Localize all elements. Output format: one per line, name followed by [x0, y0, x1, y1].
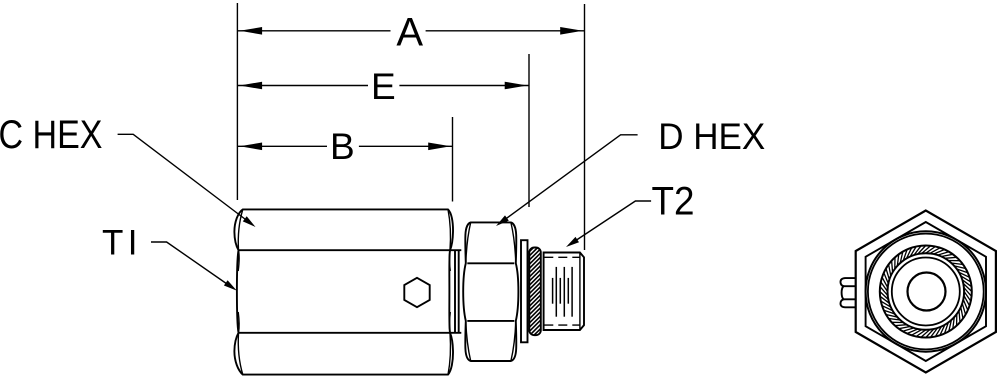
svg-text:D HEX: D HEX — [658, 116, 765, 157]
dimension B — [237, 143, 452, 151]
extension line B (right) — [452, 117, 454, 202]
D hex band line top — [467, 262, 514, 264]
neck face line (nut side) — [458, 250, 460, 333]
end view thread circle — [892, 258, 960, 326]
leader T2 — [566, 201, 651, 247]
hex socket mark on body — [404, 278, 429, 307]
knurled collar T2 (side view) — [442, 248, 626, 336]
end view washer circle — [868, 234, 984, 350]
extension line (left, shared by A E B) — [236, 3, 238, 200]
svg-text:T2: T2 — [652, 180, 695, 224]
svg-text:C HEX: C HEX — [0, 113, 103, 157]
neck face line (body end) — [454, 250, 456, 333]
dimension E — [237, 82, 529, 90]
leader T1 — [151, 242, 237, 291]
tab band lines — [844, 285, 856, 287]
end view knurl ring outer circle — [880, 246, 972, 338]
male thread T2 outline — [544, 253, 584, 331]
end view knurl ring inner circle — [888, 253, 965, 330]
svg-text:A: A — [396, 11, 423, 55]
leader D HEX — [496, 135, 638, 226]
svg-text:B: B — [330, 126, 355, 167]
end view inner hexagon — [866, 222, 986, 361]
dimension A — [237, 27, 584, 35]
svg-text:E: E — [371, 66, 396, 107]
body band line top — [239, 249, 462, 251]
end view center hole — [908, 273, 946, 311]
thread minor dia dashed bottom — [544, 324, 580, 326]
body band line bottom — [239, 332, 462, 334]
washer — [521, 240, 528, 342]
D hex band line bottom — [467, 320, 514, 322]
D hex chamfer lens arcs — [466, 222, 516, 361]
extension line E (right) — [528, 54, 530, 207]
body C HEX outline — [234, 209, 453, 374]
body chamfer lens arcs — [238, 209, 450, 374]
thread chamfer line — [579, 253, 581, 331]
end view outer hexagon — [856, 211, 996, 373]
extension line A (right) — [584, 4, 586, 250]
nut D HEX outline — [463, 222, 518, 361]
thread crest lines — [553, 267, 573, 317]
end view side tab — [840, 278, 855, 307]
end view chamfer circle — [866, 231, 986, 351]
leader C HEX — [118, 134, 256, 227]
end view knurl hatching — [880, 246, 972, 338]
thread minor dia dashed top — [544, 256, 580, 258]
svg-text:TI: TI — [102, 224, 137, 263]
